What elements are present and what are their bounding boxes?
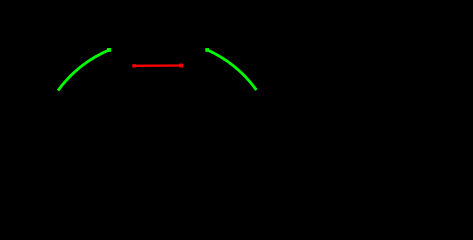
- red segment left marker: [132, 64, 136, 67]
- right green arc start marker: [205, 48, 209, 52]
- red segment: [134, 64, 181, 67]
- left green arc: [58, 50, 109, 91]
- red segment right marker: [179, 64, 183, 68]
- left green arc end marker: [107, 48, 111, 52]
- right green arc: [207, 50, 256, 90]
